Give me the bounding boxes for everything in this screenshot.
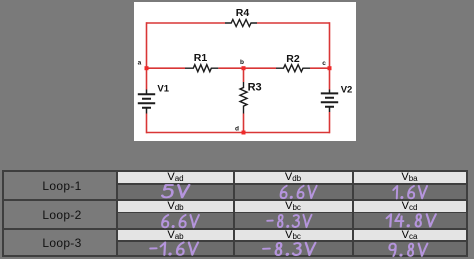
wire b down to R3 <box>243 68 245 82</box>
wire right vertical lower <box>329 112 331 133</box>
battery V1 <box>138 90 155 114</box>
loop labels <box>6 179 118 193</box>
node d <box>242 131 246 135</box>
loop2 Vcd value 14.8V <box>386 214 436 226</box>
resistor R2 <box>276 65 310 72</box>
table: vertical borders <box>2 170 4 257</box>
wire R1 to R2 through b <box>218 67 276 69</box>
circuit schematic SVG <box>134 2 356 141</box>
loop1 Vad value 5V <box>162 185 189 197</box>
loop2 Vbc value -8.3V <box>267 215 312 227</box>
loop3 Vca value 9.8V <box>389 244 428 256</box>
table: header light bands <box>118 172 466 183</box>
node b <box>242 66 246 70</box>
wire bottom horizontal <box>147 132 330 134</box>
table: horizontal borders <box>2 170 468 172</box>
white circuit panel <box>134 2 356 141</box>
loop1 Vba value 1.6V <box>393 186 427 198</box>
wire R3 to d <box>243 114 245 133</box>
header labels row3 <box>118 229 233 241</box>
table: header underlines <box>116 183 468 185</box>
header labels row1 <box>118 171 233 183</box>
wire left vertical lower <box>146 114 148 134</box>
resistor R3 <box>240 82 247 114</box>
table: value cell dark bands <box>118 183 466 199</box>
loop3 Vbc value -8.3V <box>263 243 316 255</box>
wire top-left horizontal <box>147 22 226 24</box>
loop3 Vab value -1.6V <box>150 243 198 255</box>
resistor R4 <box>225 20 257 27</box>
wire R2 to c <box>310 67 330 69</box>
header labels row2 <box>118 200 233 212</box>
wire left vertical upper <box>146 22 148 89</box>
node c <box>328 66 332 70</box>
wire right vertical upper <box>329 22 331 89</box>
loop2 Vdb value 6.6V <box>162 215 199 227</box>
wire top-right horizontal <box>257 22 330 24</box>
loop1 Vdb value 6.6V <box>280 186 316 198</box>
battery V2 <box>321 90 338 113</box>
node a <box>145 66 149 70</box>
wire a to R1 <box>147 67 186 69</box>
resistor R1 <box>185 65 218 72</box>
